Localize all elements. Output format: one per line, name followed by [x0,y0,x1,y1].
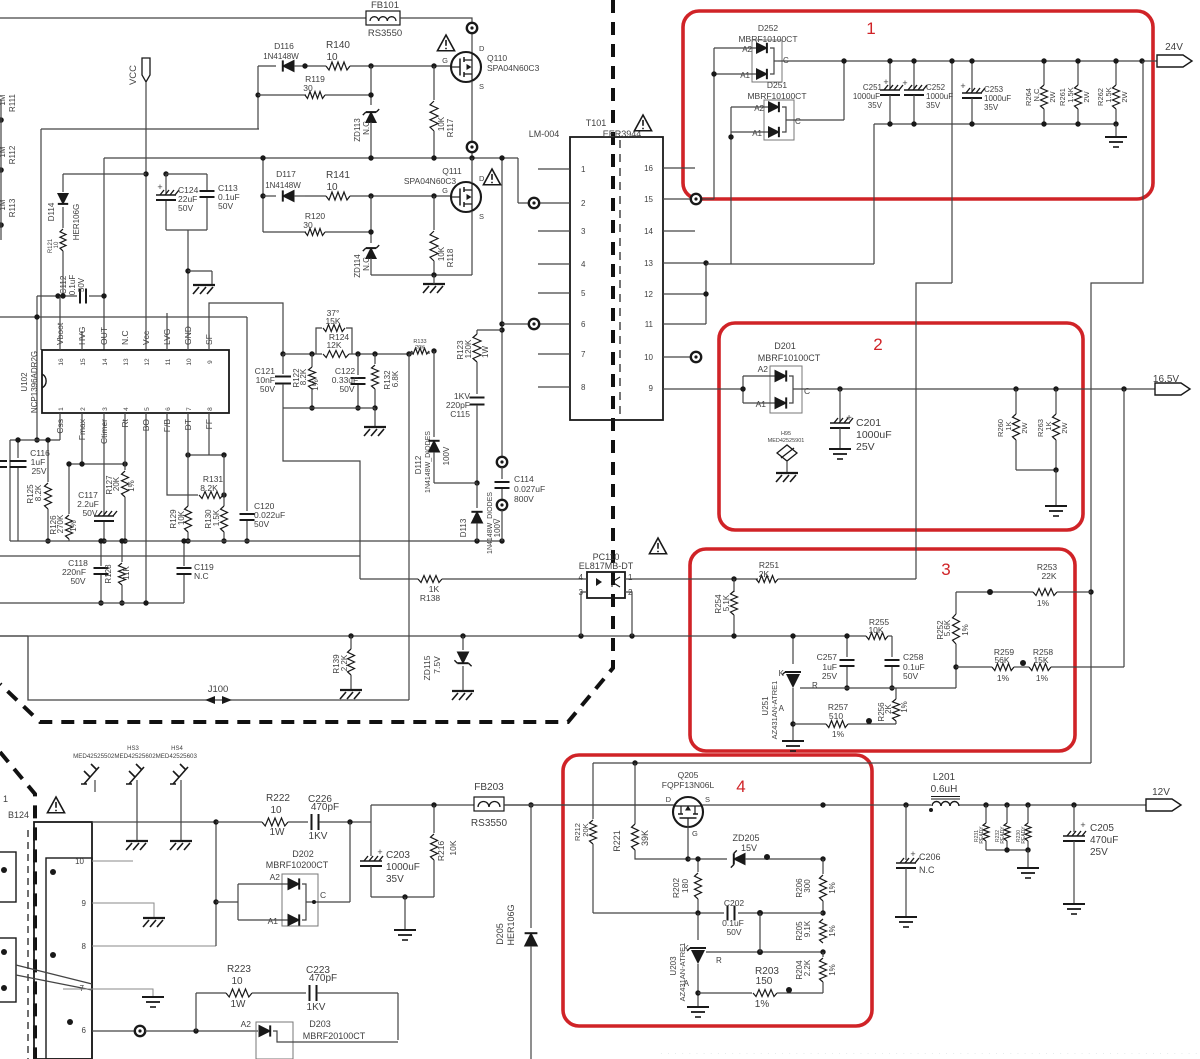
svg-text:1: 1 [58,407,65,411]
resistor R222 10 1W [262,818,288,826]
svg-text:+: + [902,78,907,88]
svg-text:+: + [960,81,965,91]
svg-text:1%: 1% [828,882,837,894]
wire Q111 source to ground [471,211,473,275]
resistor 15K 37deg [316,328,322,354]
capacitor C120 0.022uF 50V [246,317,248,511]
svg-text:14: 14 [644,227,653,236]
svg-text:A1: A1 [740,71,750,80]
svg-text:470pF: 470pF [309,973,337,984]
resistor R129 10K on DT [187,413,189,506]
svg-text:1: 1 [3,794,8,804]
svg-text:1000uF: 1000uF [984,94,1011,103]
ground C206 [895,917,917,927]
svg-text:D251: D251 [767,80,788,90]
resistor R251 2K [756,576,778,583]
resistor R123 120K 1W [477,329,502,331]
test point TP C114 top [497,457,507,467]
svg-text:15: 15 [644,195,653,204]
wire FB101 to Q110 drain [400,18,472,23]
test point TP pin6 [529,319,539,329]
wire C203 R216 bottoms [371,896,434,898]
svg-text:9: 9 [207,360,214,364]
svg-text:35V: 35V [386,874,404,885]
wire T201 pin6 [92,1030,135,1032]
svg-text:ZD114: ZD114 [353,254,362,278]
resistor R258 15K 1% [1029,664,1051,671]
svg-text:4: 4 [579,573,584,582]
svg-text:10: 10 [231,976,243,987]
wire D251 anodes to pins 13-11 [730,132,732,264]
svg-text:22K: 22K [1041,571,1056,581]
ground R139 [340,690,362,699]
svg-text:A1: A1 [756,399,767,409]
svg-text:1%: 1% [1036,673,1049,683]
svg-text:VCC: VCC [128,65,139,85]
svg-text:1%: 1% [900,701,909,713]
svg-text:150: 150 [756,976,773,987]
svg-text:+: + [377,847,382,857]
svg-text:C: C [804,386,810,396]
ground R23x [1017,868,1039,878]
svg-text:MED42525901: MED42525901 [768,438,805,444]
capacitor C258 0.1uF 50V [891,636,893,657]
svg-text:MBRF10200CT: MBRF10200CT [266,860,329,870]
svg-text:R216: R216 [436,841,446,862]
resistor R257 510 1% [793,723,826,725]
ground H95 [776,473,798,482]
svg-text:1%: 1% [127,480,136,492]
wire PC110 pin2 [625,592,632,636]
svg-text:12V: 12V [1152,787,1170,798]
svg-text:C253: C253 [984,85,1004,94]
svg-text:R111: R111 [8,93,17,111]
svg-text:2K: 2K [759,569,770,579]
resistor R118 10K [433,196,435,230]
wire long vertical [408,354,410,700]
wire 24V rail [778,60,1157,62]
wire Css node [59,413,61,440]
shunt U251 AZ431AN-ATRE1 [792,636,794,664]
capacitor C114 0.027uF 800V [501,467,503,479]
wire pin9 to D201 [663,388,743,390]
wire snubber vertical [501,158,503,457]
zener ZD113 N.C [370,66,372,105]
warning triangle Q111 [483,169,500,185]
svg-text:D: D [479,44,485,53]
wire snubber mid [428,351,430,354]
svg-text:0.027uF: 0.027uF [514,484,545,494]
svg-text:D117: D117 [276,169,296,179]
resistor R253 22K 1% [1033,589,1057,596]
svg-text:1N4148W: 1N4148W [265,181,301,190]
svg-text:HER106G: HER106G [506,904,516,945]
resistor R252 5.6K 1% [955,592,957,614]
svg-text:ZD115: ZD115 [422,655,432,680]
svg-text:0.1uF: 0.1uF [68,275,77,296]
svg-text:G: G [692,829,698,838]
svg-text:3: 3 [581,227,586,236]
svg-text:K: K [779,669,785,678]
svg-text:G: G [442,186,448,195]
svg-text:2W: 2W [1120,90,1129,102]
svg-text:7.5V: 7.5V [432,656,442,674]
svg-text:1.5K: 1.5K [1104,87,1113,102]
MOSFET Q205 FQPF13N06L [673,797,703,827]
resistor R141 10 [305,195,326,197]
wire R23x bottoms [986,849,1028,851]
svg-text:C251: C251 [863,83,883,92]
svg-text:A: A [779,704,785,713]
svg-text:120K: 120K [464,339,473,358]
resistor R232 READY [1006,805,1008,823]
svg-text:50V: 50V [82,508,97,518]
svg-text:Q111: Q111 [442,166,462,176]
svg-text:11K: 11K [122,566,131,580]
svg-text:2.2K: 2.2K [340,654,349,671]
svg-text:J100: J100 [208,684,229,695]
svg-text:1: 1 [628,573,633,582]
svg-text:N.C: N.C [362,257,371,271]
capacitor C118 220nF 50V [100,541,102,566]
wire left sense chain [0,100,2,240]
node 24V output [1139,58,1144,63]
node 12V output [1146,799,1181,811]
node 16.5V output [1155,383,1190,395]
svg-text:ZD113: ZD113 [353,118,362,142]
wire mid bus [0,635,866,637]
svg-text:ZD205: ZD205 [732,833,759,843]
svg-text:N.C: N.C [194,571,209,581]
wire 16.5V sense down [1123,389,1125,667]
svg-text:MED42525502MED42525602MED42525: MED42525502MED42525602MED42525603 [73,753,197,760]
svg-text:C205: C205 [1090,823,1114,834]
test point TP pin2 [529,198,539,208]
ground HS3 [136,780,138,840]
svg-text:R113: R113 [8,198,17,217]
svg-text:5: 5 [581,289,586,298]
resistor R261 1.5K 2W [1077,61,1079,85]
ground pin9 [143,918,165,927]
wire T201 pin10 [92,860,133,862]
test point TP C114 bottom [497,500,507,510]
warning triangle near T101 [634,115,651,131]
svg-text:10: 10 [326,182,338,193]
warning triangle secondary [649,538,666,554]
svg-text:Vcc: Vcc [141,330,151,345]
resistor R122 8.2K 1% [311,354,313,367]
svg-text:1W: 1W [231,999,247,1010]
fuse FB101 RS3550 [366,11,400,25]
svg-text:C258: C258 [903,652,924,662]
resistor R230 READY [1027,805,1029,823]
ground ZD115 [452,691,474,700]
resistor R256 2K 1% [895,688,897,699]
svg-text:1K: 1K [1004,421,1013,430]
resistor R138 1K [360,578,418,580]
svg-text:35V: 35V [926,101,941,110]
resistor R124 12K [323,351,349,358]
wire cap bottom rail [874,123,1116,125]
svg-text:1000uF: 1000uF [386,862,420,873]
wire 24V feed down right [1091,61,1143,763]
svg-text:1%: 1% [828,925,837,937]
svg-text:25V: 25V [822,671,837,681]
capacitor C202 0.1uF 50V [728,906,735,921]
svg-text:S: S [479,212,484,221]
svg-text:1000uF: 1000uF [853,92,880,101]
svg-text:8.2K: 8.2K [34,484,43,501]
svg-text:5.6K: 5.6K [943,619,952,636]
shunt U203 AZ431AN-ATRE1 [697,913,699,940]
svg-text:N.C: N.C [362,121,371,135]
wire R222 branch [215,822,217,946]
warning triangle T201 [47,797,64,813]
svg-text:D203: D203 [309,1019,331,1029]
resistor R203 150 1% [698,992,752,994]
svg-text:READY: READY [979,826,985,844]
svg-text:READY: READY [1000,826,1006,844]
resistor R120 30 [263,231,306,233]
svg-text:50V: 50V [339,384,354,394]
wire BO to left rail [145,413,147,603]
svg-text:D114: D114 [47,202,56,221]
svg-text:N.C: N.C [120,330,130,345]
ground near U102 GND pin [193,285,215,294]
svg-text:+: + [846,413,852,424]
optocoupler PC110 EL817MB-DT [587,572,625,598]
IC U102 NCP1396ADR2G [42,350,229,413]
inductor L201 0.6uH [931,797,960,807]
test point TP pin10 [663,356,691,358]
resistor R255 10K [866,633,888,640]
wire 16.5V rail [793,388,1155,390]
svg-text:B124: B124 [8,810,29,820]
svg-text:470uF: 470uF [1090,835,1118,846]
ground U203 [687,1007,709,1017]
capacitor C203 1000uF 35V [370,822,372,856]
svg-text:U102: U102 [20,372,29,392]
svg-text:35V: 35V [868,101,883,110]
region box 3 [690,549,1075,751]
svg-text:2: 2 [581,199,586,208]
svg-text:10K: 10K [177,510,186,525]
svg-text:10: 10 [54,241,60,248]
capacitor C117 2.2uF 50V [103,413,105,514]
svg-text:1%: 1% [755,999,770,1010]
svg-text:1: 1 [581,165,586,174]
svg-text:8.2K: 8.2K [200,483,218,493]
wire J100 [0,635,28,637]
isolation boundary dashed lower [0,752,35,1059]
svg-text:3: 3 [941,560,950,579]
VCC power flag [142,58,150,82]
svg-text:8.2K: 8.2K [299,368,308,385]
diode D114 HER106G [63,173,146,175]
svg-text:800V: 800V [514,494,534,504]
wire AC input top [0,17,366,19]
resistor R212 20K [592,763,594,819]
svg-text:270K: 270K [56,514,65,533]
diode D117 1N4148W [262,158,264,232]
svg-text:1K: 1K [1044,421,1053,430]
svg-text:1%: 1% [997,673,1010,683]
T101 left pin stubs [538,230,570,232]
svg-text:14: 14 [102,358,109,366]
test point TP pin15 [663,198,691,200]
svg-text:1%: 1% [832,729,845,739]
svg-text:100V: 100V [493,518,502,537]
resistor R117 10K [433,66,435,100]
ground box2 [1045,506,1067,516]
svg-text:1KV: 1KV [309,831,328,842]
svg-text:FQPF13N06L: FQPF13N06L [662,780,715,790]
resistor R119 30 [258,94,306,96]
svg-text:15V: 15V [741,843,757,853]
svg-text:D: D [479,174,485,183]
svg-text:50V: 50V [254,519,269,529]
diode D205 HER106G [530,805,532,928]
svg-text:S: S [705,795,710,804]
svg-text:2K: 2K [884,703,893,713]
svg-text:2W: 2W [1048,90,1057,102]
wire R260 R263 bottoms [1016,469,1056,471]
svg-text:······························: ········································… [660,1049,1200,1058]
svg-text:50V: 50V [77,277,86,292]
wire C122 bottom rail to ground [283,407,375,409]
resistor R127 20K 1% on Rt [124,413,126,470]
resistor R259 56K 1% [992,664,1014,671]
wire feedback loop [283,408,360,579]
capacitor C206 N.C [905,805,907,860]
transformer T101 [570,137,663,420]
resistor R206 300 1% [822,859,824,874]
svg-text:39K: 39K [640,830,650,846]
svg-text:10: 10 [644,353,653,362]
capacitor C121 10nF 50V [280,351,285,356]
svg-text:G: G [442,56,448,65]
capacitor edge partial [0,461,7,467]
wire switch node to T101 pin1 pin2 [368,155,373,160]
wire to left edge [0,316,247,318]
svg-text:C206: C206 [919,852,941,862]
wire HVG net [41,128,259,130]
svg-text:A2: A2 [758,364,769,374]
svg-text:10K: 10K [448,840,458,855]
wire top winding rail [92,821,216,823]
wire D112 to C115 [434,482,477,484]
svg-text:R112: R112 [8,145,17,164]
resistor R231 READY [985,805,987,823]
svg-text:16: 16 [644,164,653,173]
svg-text:HS4: HS4 [171,746,183,752]
svg-text:20K: 20K [415,345,425,351]
wire PC110 pin3 [581,592,587,636]
svg-text:1%: 1% [311,379,320,391]
svg-text:50V: 50V [726,927,741,937]
ground C203 [394,930,416,940]
svg-text:FB203: FB203 [474,782,504,793]
warning triangle Q110 [437,35,454,51]
svg-text:D202: D202 [292,849,314,859]
svg-text:15K: 15K [325,316,340,326]
svg-text:1.5K: 1.5K [1066,87,1075,102]
resistor R223 10 1W [195,993,197,1031]
ground C201 [829,449,851,459]
ground pin7 [142,997,164,1007]
wire bottom bus [10,540,502,542]
svg-text:1W: 1W [481,346,490,358]
resistor R264 N.C 2W [1043,61,1045,85]
wire SF pin routing [209,303,283,354]
resistor R132 6.8K [374,354,376,364]
region box 2 [719,323,1083,530]
svg-text:10: 10 [186,358,193,366]
resistor R202 180 [697,859,699,872]
svg-text:D116: D116 [274,41,294,51]
wire crossing leads [16,965,92,984]
wire Q205 gate [687,826,689,859]
wire LVG stub [166,313,168,350]
svg-text:1.5K: 1.5K [212,509,221,526]
svg-text:24V: 24V [1165,42,1183,53]
wire ref row [800,687,956,689]
svg-text:R223: R223 [227,964,251,975]
svg-text:T101: T101 [586,118,607,128]
svg-text:6: 6 [82,1026,87,1035]
test point TP above Q110 [467,23,477,33]
MOSFET Q110 SPA04N60C3 [451,52,481,82]
svg-text:1%: 1% [961,624,970,636]
svg-text:6.8K: 6.8K [391,370,400,387]
wire caps to ground [166,229,207,231]
svg-text:D252: D252 [758,23,779,33]
svg-text:1: 1 [866,19,875,38]
capacitor C253 1000uF 35V [971,61,973,91]
svg-text:C252: C252 [926,83,946,92]
svg-text:10: 10 [270,805,282,816]
wire R259 R258 row [956,666,992,668]
wire gate feed line [593,762,1091,764]
zener ZD114 N.C [370,196,372,243]
svg-text:RS3550: RS3550 [471,818,508,829]
wire pins 13-11 common [663,262,706,264]
svg-text:50V: 50V [260,384,275,394]
svg-text:U251: U251 [761,696,770,716]
svg-text:C201: C201 [856,417,881,429]
svg-text:A2: A2 [742,45,752,54]
ground HS4 [180,780,182,840]
svg-text:AZ431AN-ATRE1: AZ431AN-ATRE1 [770,681,779,740]
wire Q110 source node [471,81,473,141]
svg-text:13: 13 [123,358,130,366]
capacitor C226 470pF 1KV [312,814,319,830]
svg-text:FB101: FB101 [371,0,399,11]
wire C202 to ref [759,913,761,952]
svg-text:R117: R117 [446,118,455,137]
svg-text:C203: C203 [386,850,410,861]
svg-text:510: 510 [829,711,843,721]
svg-text:Q110: Q110 [487,53,507,63]
svg-text:9: 9 [82,899,87,908]
svg-text:25V: 25V [856,441,875,453]
wire gate divider row [593,912,724,914]
svg-text:180: 180 [680,879,690,893]
svg-text:2W: 2W [1082,90,1091,102]
svg-text:9.1K: 9.1K [803,920,812,937]
wire T201 pin8 [92,945,216,947]
wire 24V tap down [951,61,953,283]
